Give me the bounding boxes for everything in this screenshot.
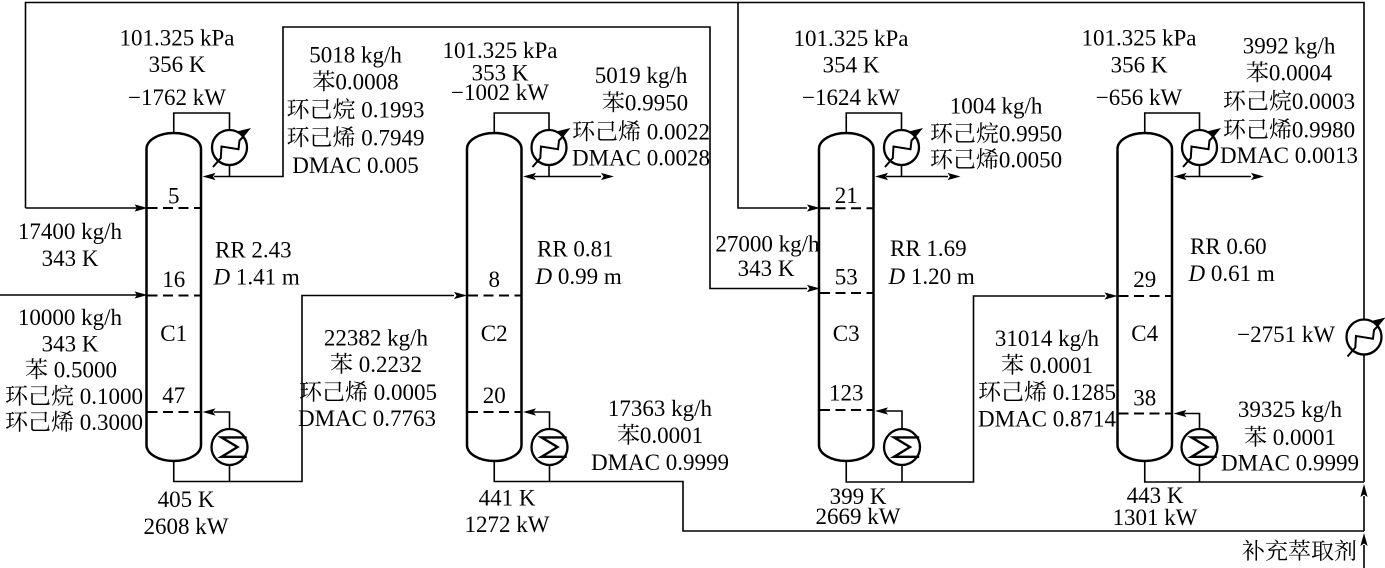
label C3 distillate cyclohexane	[931, 123, 952, 144]
svg-text:0.5000: 0.5000	[54, 358, 117, 383]
label C1 bottoms cyclohexene	[300, 381, 321, 402]
svg-text:1272 kW: 1272 kW	[465, 512, 550, 537]
arrow C3 cyclohexane product out	[948, 173, 961, 180]
svg-text:0.2232: 0.2232	[359, 352, 422, 377]
pipe: fresh feed to C1 stage 16	[0, 294, 141, 296]
label C4 bottoms benzene	[1245, 426, 1266, 447]
svg-text:0.0005: 0.0005	[374, 380, 437, 405]
reboiler C4 (1301 kW)	[1182, 429, 1218, 465]
column C3 stage 123 dashed line	[820, 409, 873, 411]
label C3 bottoms cyclohexene	[979, 381, 1000, 402]
svg-text:2669 kW: 2669 kW	[816, 504, 901, 529]
svg-text:1004 kg/h: 1004 kg/h	[950, 94, 1043, 119]
column C1 stage 16 dashed line	[148, 295, 201, 297]
pipe: C1 distillate to C3 stage 53	[230, 27, 808, 289]
column C3 stage 53 dashed line	[820, 292, 873, 294]
pipe: C2 overhead vapour to condenser	[494, 113, 549, 135]
svg-text:C4: C4	[1131, 321, 1158, 346]
svg-text:53: 53	[835, 265, 858, 290]
pipe: C3 overhead vapour to condenser	[846, 113, 901, 135]
svg-text:39325 kg/h: 39325 kg/h	[1238, 397, 1343, 422]
svg-text:17363 kg/h: 17363 kg/h	[608, 396, 713, 421]
svg-text:0.61 m: 0.61 m	[1211, 261, 1275, 286]
svg-text:0.0001: 0.0001	[1273, 425, 1336, 450]
label fresh feed cyclohexene fraction	[6, 411, 27, 432]
svg-text:D: D	[1188, 261, 1206, 286]
arrow boilup into C4	[1174, 410, 1187, 417]
svg-text:441 K: 441 K	[479, 486, 536, 511]
condenser C3 (-1624 kW)	[884, 130, 919, 165]
pipe: C4 reboiler return	[1185, 414, 1200, 430]
pipe: C1 reboiler return	[214, 412, 230, 429]
svg-text:38: 38	[1133, 386, 1156, 411]
arrow make-up extractant into recycle line	[1360, 533, 1367, 546]
column C4 vessel	[1118, 133, 1173, 461]
svg-text:356 K: 356 K	[1111, 53, 1168, 78]
svg-text:101.325 kPa: 101.325 kPa	[794, 26, 909, 51]
svg-text:RR 2.43: RR 2.43	[215, 238, 292, 263]
svg-text:3992 kg/h: 3992 kg/h	[1243, 34, 1336, 59]
label fresh feed benzene fraction	[26, 358, 47, 379]
column C2 stage 20 dashed line	[468, 411, 521, 413]
svg-text:0.9980: 0.9980	[1292, 118, 1355, 143]
svg-text:1.41 m: 1.41 m	[236, 265, 300, 290]
svg-text:101.325 kPa: 101.325 kPa	[443, 38, 558, 63]
column C3 vessel	[819, 133, 874, 461]
arrow reflux into C3	[875, 173, 888, 180]
svg-text:0.1285: 0.1285	[1053, 380, 1116, 405]
column C2 vessel	[467, 133, 522, 461]
label C2 bottoms benzene	[618, 424, 639, 445]
arrow into C3 stage 21	[807, 204, 820, 211]
svg-text:101.325 kPa: 101.325 kPa	[1082, 26, 1197, 51]
pipe: C4 overhead vapour to condenser	[1145, 113, 1200, 135]
svg-text:DMAC 0.005: DMAC 0.005	[292, 153, 419, 178]
label C1 distillate benzene	[313, 70, 334, 91]
svg-text:0.0022: 0.0022	[647, 120, 710, 145]
svg-text:DMAC 0.9999: DMAC 0.9999	[1221, 451, 1359, 476]
svg-text:354 K: 354 K	[823, 53, 880, 78]
reboiler C3 (2669 kW)	[884, 429, 920, 465]
svg-text:0.9950: 0.9950	[999, 122, 1062, 147]
svg-text:101.325 kPa: 101.325 kPa	[120, 26, 235, 51]
arrow C2 benzene product out	[601, 173, 614, 180]
svg-text:DMAC 0.8714: DMAC 0.8714	[978, 407, 1117, 432]
svg-text:D: D	[213, 265, 231, 290]
svg-text:0.0001: 0.0001	[640, 423, 703, 448]
svg-text:0.0003: 0.0003	[1292, 89, 1355, 114]
label C4 distillate cyclohexene	[1224, 119, 1245, 140]
arrow into C4 stage 29	[1105, 292, 1118, 299]
pipe: C4 bottoms to recycle riser	[1145, 459, 1364, 482]
svg-text:5019 kg/h: 5019 kg/h	[595, 63, 688, 88]
svg-text:356 K: 356 K	[149, 52, 206, 77]
pipe: solvent feed to C1 stage 5	[26, 207, 142, 209]
column C1 stage 47 dashed line	[148, 411, 201, 413]
svg-text:−1002 kW: −1002 kW	[451, 80, 549, 105]
label C1 bottoms benzene	[331, 353, 352, 374]
pipe: C1 condensate and reflux	[214, 164, 230, 177]
label C2 distillate benzene	[603, 91, 624, 112]
pipe: C2 reflux and distillate	[534, 164, 601, 177]
svg-text:2608 kW: 2608 kW	[144, 514, 229, 539]
pipe: recycle riser segment	[1363, 496, 1365, 531]
svg-text:1301 kW: 1301 kW	[1113, 505, 1198, 530]
svg-text:123: 123	[829, 381, 864, 406]
arrow solvent recycle joining C4 bottoms line	[1360, 484, 1367, 497]
column C4 stage 38 dashed line	[1119, 413, 1172, 415]
svg-text:0.1000: 0.1000	[80, 384, 143, 409]
svg-text:27000 kg/h: 27000 kg/h	[715, 232, 820, 257]
svg-text:−1762 kW: −1762 kW	[128, 85, 226, 110]
svg-text:29: 29	[1133, 267, 1156, 292]
svg-text:5018 kg/h: 5018 kg/h	[309, 43, 402, 68]
svg-text:343 K: 343 K	[42, 246, 99, 271]
svg-text:0.0004: 0.0004	[1269, 61, 1333, 86]
svg-text:C3: C3	[833, 321, 860, 346]
pipe: C2 bottoms solvent recycle	[494, 459, 1364, 531]
label C1 distillate cyclohexene	[287, 127, 308, 148]
svg-text:RR 0.60: RR 0.60	[1190, 234, 1267, 259]
column C3 stage 21 dashed line	[820, 207, 873, 209]
svg-text:10000 kg/h: 10000 kg/h	[18, 305, 123, 330]
svg-text:−2751 kW: −2751 kW	[1237, 322, 1335, 347]
condenser C4 (-656 kW)	[1182, 130, 1217, 165]
svg-text:22382 kg/h: 22382 kg/h	[324, 326, 429, 351]
svg-text:0.1993: 0.1993	[361, 98, 424, 123]
arrow into C1 stage 16	[135, 291, 148, 298]
pipe: C1 bottoms to C2 feed	[174, 296, 454, 482]
svg-text:C1: C1	[160, 321, 187, 346]
svg-text:D: D	[888, 264, 906, 289]
label make-up extractant	[1243, 540, 1264, 561]
column C2 stage 8 dashed line	[468, 295, 521, 297]
condenser C1 (-1762 kW)	[212, 130, 247, 165]
reboiler C1 (2608 kW)	[212, 429, 248, 465]
condenser C2 (-1002 kW)	[532, 130, 567, 165]
svg-text:5: 5	[168, 184, 180, 209]
svg-text:0.99 m: 0.99 m	[558, 264, 622, 289]
pipe: solvent branch to C3 stage 21	[738, 3, 807, 209]
svg-text:47: 47	[162, 383, 185, 408]
label C3 bottoms benzene	[1002, 354, 1023, 375]
arrow reflux into C1	[203, 173, 216, 180]
svg-text:−656 kW: −656 kW	[1096, 85, 1183, 110]
arrow boilup into C2	[523, 408, 536, 415]
svg-text:0.0050: 0.0050	[999, 148, 1062, 173]
svg-text:17400 kg/h: 17400 kg/h	[18, 219, 123, 244]
svg-text:20: 20	[483, 383, 506, 408]
label fresh feed cyclohexane fraction	[6, 385, 27, 406]
arrow C4 cyclohexene product out	[1251, 173, 1264, 180]
svg-text:1.20 m: 1.20 m	[911, 264, 975, 289]
svg-text:21: 21	[835, 183, 858, 208]
svg-text:C2: C2	[481, 321, 508, 346]
label C1 distillate cyclohexane	[287, 99, 308, 120]
svg-text:DMAC 0.0013: DMAC 0.0013	[1220, 143, 1358, 168]
arrow boilup into C3	[875, 407, 888, 414]
svg-text:31014 kg/h: 31014 kg/h	[995, 326, 1100, 351]
svg-text:16: 16	[162, 267, 185, 292]
pipe: make-up extractant from bottom edge	[1363, 545, 1365, 568]
svg-text:DMAC 0.9999: DMAC 0.9999	[591, 450, 729, 475]
column C4 stage 29 dashed line	[1119, 295, 1172, 297]
pipe: C3 bottoms to C4 feed	[846, 296, 1105, 482]
svg-text:0.7949: 0.7949	[361, 126, 424, 151]
svg-text:343 K: 343 K	[42, 332, 99, 357]
svg-text:RR 1.69: RR 1.69	[890, 236, 967, 261]
svg-text:DMAC 0.7763: DMAC 0.7763	[298, 406, 436, 431]
pipe: C4 reflux and distillate	[1185, 164, 1252, 177]
svg-text:343 K: 343 K	[738, 256, 795, 281]
arrow into C1 stage 5	[135, 204, 148, 211]
svg-text:0.9950: 0.9950	[625, 91, 688, 116]
reboiler C2 (1272 kW)	[532, 429, 568, 465]
label C4 distillate cyclohexane	[1224, 90, 1245, 111]
svg-text:DMAC 0.0028: DMAC 0.0028	[572, 146, 710, 171]
pipe: C1 overhead vapour to condenser	[174, 113, 230, 135]
label C4 distillate benzene	[1247, 61, 1268, 82]
svg-text:RR 0.81: RR 0.81	[537, 237, 614, 262]
label C3 distillate cyclohexene	[931, 149, 952, 170]
arrow boilup into C1	[203, 408, 216, 415]
svg-text:D: D	[535, 264, 553, 289]
svg-text:−1624 kW: −1624 kW	[802, 85, 900, 110]
label C2 distillate cyclohexene	[573, 121, 594, 142]
arrow reflux into C4	[1174, 173, 1187, 180]
arrow into C3 stage 53	[807, 285, 820, 292]
svg-text:0.0008: 0.0008	[335, 70, 398, 95]
column C1 stage 5 dashed line	[148, 207, 201, 209]
pipe: C2 reboiler return	[534, 412, 550, 429]
svg-text:8: 8	[489, 267, 501, 292]
arrow reflux into C2	[523, 173, 536, 180]
cooler recycle solvent (-2751 kW)	[1347, 320, 1382, 355]
pipe: C3 reboiler return	[886, 411, 902, 429]
svg-text:405 K: 405 K	[158, 487, 215, 512]
column C1 vessel	[147, 133, 202, 461]
svg-text:0.3000: 0.3000	[80, 410, 143, 435]
pipe: C3 reflux and distillate	[886, 164, 948, 177]
arrow into C2 stage 8	[454, 292, 467, 299]
svg-text:0.0001: 0.0001	[1030, 353, 1093, 378]
